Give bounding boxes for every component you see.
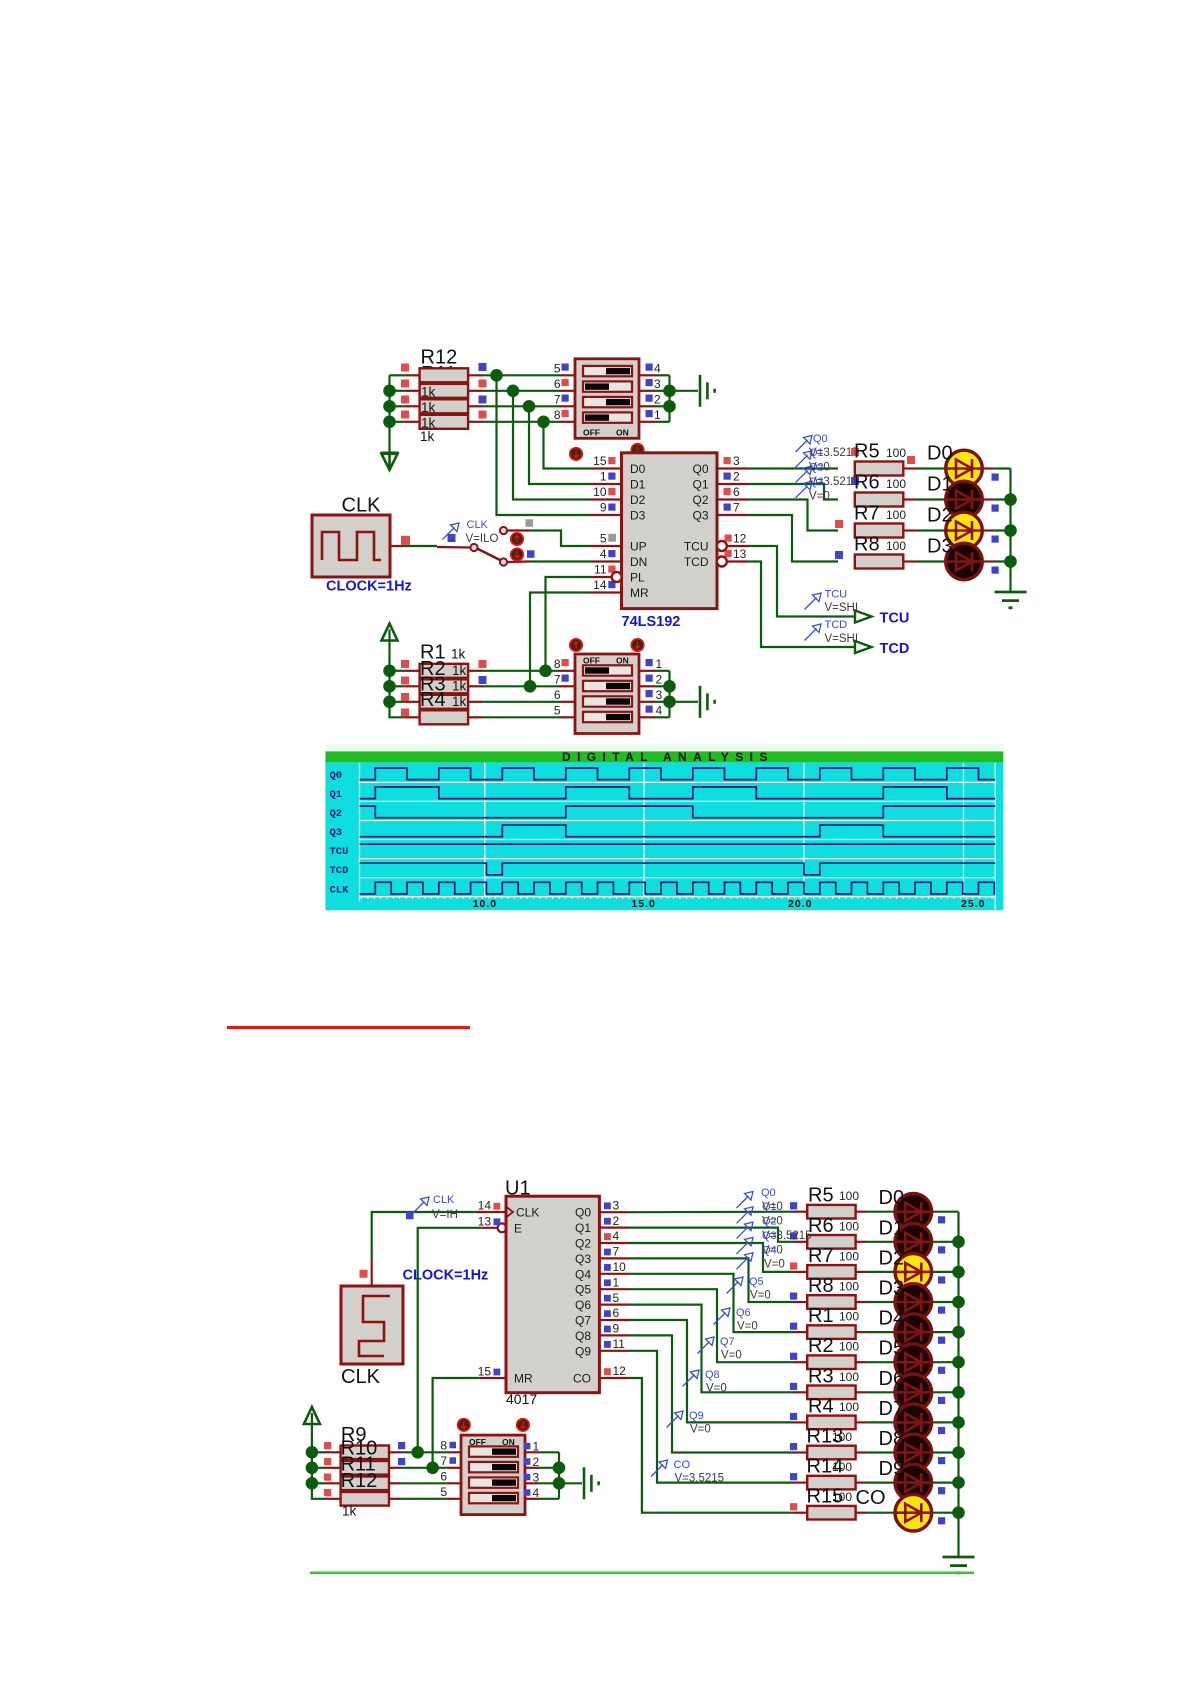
svg-text:14: 14 [478, 1199, 492, 1213]
wire pin14 stub [476, 1211, 507, 1213]
resistor R11 body [341, 1477, 389, 1491]
trace CLK [360, 882, 996, 894]
svg-text:CLOCK=1Hz: CLOCK=1Hz [326, 579, 412, 595]
svg-text:Q6: Q6 [736, 1307, 751, 1319]
svg-text:Q1: Q1 [809, 447, 824, 459]
wire UP pin stub [591, 545, 622, 547]
svg-text:1: 1 [656, 657, 663, 671]
power symbol VCC above R1 [382, 624, 398, 641]
svg-text:Q8: Q8 [705, 1369, 720, 1381]
wire wire to DIP3 y=1483 [401, 1482, 447, 1484]
resistor R6 [807, 1235, 855, 1249]
wire wire LED to bus [994, 529, 1010, 531]
ground arrow below R12 bus [381, 453, 399, 470]
wire R5 stub left [794, 1211, 808, 1213]
svg-text:CLOCK=1Hz: CLOCK=1Hz [403, 1268, 489, 1284]
logic state indicator above DSW3 a [458, 1419, 470, 1431]
svg-text:V=0: V=0 [721, 1350, 742, 1362]
svg-text:R7: R7 [854, 503, 880, 525]
svg-text:11: 11 [613, 1337, 626, 1351]
svg-text:7: 7 [733, 500, 740, 514]
svg-text:9: 9 [613, 1322, 620, 1336]
wire R9 stub left y=1452 [325, 1451, 341, 1453]
svg-text:PL: PL [630, 571, 645, 585]
wire R1 row y=686.3 [390, 685, 405, 687]
wire wire R12 to DIP1 y=390.8 [483, 390, 560, 392]
wire wire DIP row 391 to IC D-pin 500 [513, 391, 591, 500]
svg-text:13: 13 [733, 547, 747, 561]
junction [952, 1296, 965, 1309]
svg-text:R2: R2 [808, 1335, 834, 1357]
junction [383, 385, 396, 398]
wire wire LED to bus [932, 1391, 959, 1393]
svg-text:74LS192: 74LS192 [622, 614, 681, 630]
wire R2 stub right [856, 1361, 866, 1363]
svg-text:R3: R3 [808, 1365, 834, 1387]
wire LED stub right [983, 498, 995, 500]
svg-text:25.0: 25.0 [961, 898, 985, 910]
trace TCU [360, 843, 996, 845]
trace Q2 [360, 806, 996, 818]
probe arrow Q5 [727, 1277, 744, 1294]
svg-text:Q2: Q2 [762, 1216, 777, 1228]
wire wire DIP1 right y=406.3 [655, 405, 670, 407]
svg-text:TCU: TCU [330, 846, 349, 858]
wire wire to ground 2 [670, 701, 699, 703]
wire R9 stub right y=1468 [389, 1467, 401, 1469]
net markers R12 right [479, 363, 487, 371]
clock input triangle [506, 1207, 513, 1218]
wire wire Q8 to resistor [630, 1335, 794, 1452]
wire wire DIP1 right y=375.3 [655, 374, 670, 376]
svg-text:7: 7 [554, 673, 561, 687]
wire R12 pin stub left y=421.8 [404, 421, 419, 423]
wire IC1 right pin stub y=515.0 [717, 514, 748, 516]
probe arrow s2 Q2 [737, 1222, 754, 1239]
svg-text:Q7: Q7 [720, 1336, 735, 1348]
svg-text:100: 100 [886, 477, 906, 491]
svg-text:CO: CO [674, 1459, 691, 1471]
svg-text:13: 13 [478, 1214, 492, 1228]
wire wire Q1 to resistor [630, 1228, 794, 1242]
ground GND s2 [584, 1467, 599, 1499]
wire IC1 left pin stub y=499.5 [591, 498, 622, 500]
wire wire DIP3 right y=1483 [539, 1482, 560, 1484]
probe arrow s2 Q1 [737, 1207, 754, 1224]
wire wire LED to bus [994, 467, 1010, 469]
wire cathode bus [1009, 469, 1011, 592]
svg-text:15.0: 15.0 [631, 898, 655, 910]
wire wire DIP1 right y=421.8 [655, 421, 670, 423]
svg-text:TCU: TCU [825, 589, 848, 601]
svg-text:Q0: Q0 [813, 433, 828, 445]
svg-text:4017: 4017 [506, 1391, 537, 1407]
svg-text:V=IH: V=IH [432, 1209, 458, 1221]
svg-text:100: 100 [839, 1189, 859, 1203]
LED D2 [894, 1254, 932, 1291]
wire wire Q9 to resistor [630, 1351, 794, 1483]
probe arrow s2 Q3 [737, 1237, 754, 1254]
wire wire switch to DN [529, 560, 591, 562]
wire R9 stub right y=1483 [389, 1482, 401, 1484]
svg-text:Q7: Q7 [575, 1314, 591, 1328]
wire E stub [481, 1227, 497, 1229]
junction [553, 1477, 566, 1490]
probe arrow CO [651, 1460, 668, 1477]
svg-text:7: 7 [613, 1245, 620, 1259]
svg-text:R6: R6 [808, 1215, 834, 1237]
probe arrow Q1 [796, 451, 813, 468]
wire wire to DIP3 y=1468 [401, 1467, 447, 1469]
svg-text:7: 7 [554, 393, 561, 407]
wire wire LED to bus [932, 1301, 959, 1303]
wire R12 row y=375.3 [390, 374, 405, 376]
wire R8 stub left [794, 1301, 808, 1303]
svg-text:V=0: V=0 [750, 1290, 771, 1302]
svg-text:CO: CO [573, 1372, 591, 1386]
wire R12 pin stub right y=375.3 [468, 374, 483, 376]
wire wire CLK to pin14 [372, 1212, 476, 1258]
svg-text:Q9: Q9 [689, 1410, 704, 1422]
svg-text:5: 5 [440, 1485, 447, 1499]
svg-text:6: 6 [554, 377, 561, 391]
svg-text:100: 100 [839, 1370, 859, 1384]
PL pin bubble [612, 572, 622, 582]
TCU pin bubble [717, 541, 727, 551]
svg-text:8: 8 [440, 1439, 447, 1453]
resistor R12-c [420, 399, 469, 413]
resistor R1 [807, 1325, 855, 1339]
wire R9 row y=1468 [312, 1467, 325, 1469]
svg-text:R7: R7 [808, 1245, 834, 1267]
wire Q stub y=1320 [599, 1319, 629, 1321]
junction [952, 1326, 965, 1339]
terminal TCU [855, 611, 872, 623]
trace Q0 [360, 768, 996, 780]
svg-text:CO: CO [856, 1487, 886, 1509]
wire wire DIP2 right y=686.3 [655, 685, 670, 687]
wire Q stub y=1351 [599, 1350, 629, 1352]
svg-text:Q9: Q9 [575, 1344, 591, 1358]
wire wire TCD to terminal [748, 562, 856, 648]
trace Q3 [360, 825, 996, 837]
wire DIP1 pin stub right y=421.8 [639, 421, 655, 423]
wire R13 stub left [794, 1451, 808, 1453]
resistor R5 [807, 1205, 855, 1219]
wire wire Q3 to R8 [748, 515, 839, 562]
junction [523, 400, 536, 413]
svg-text:D8: D8 [879, 1428, 905, 1450]
svg-text:Q5: Q5 [575, 1283, 591, 1297]
wire IC1 right pin stub y=484.0 [717, 483, 748, 485]
svg-text:R12: R12 [341, 1470, 378, 1492]
svg-text:Q3: Q3 [762, 1230, 777, 1242]
wire wire R6 to LED [917, 498, 946, 500]
svg-text:D1: D1 [927, 474, 953, 496]
LED D6 [894, 1374, 932, 1411]
wire R3 stub right [856, 1391, 866, 1393]
wire wire Q7 to resistor [630, 1320, 794, 1422]
wire DIP3 stub right y=1452 [524, 1451, 539, 1453]
svg-text:8: 8 [554, 657, 561, 671]
wire wire DIP row 422 to IC D-pin 468 [544, 422, 591, 469]
svg-text:20.0: 20.0 [788, 898, 812, 910]
svg-text:E: E [514, 1221, 522, 1235]
wire R1 stub right [856, 1331, 866, 1333]
svg-text:6: 6 [733, 485, 740, 499]
svg-text:Q6: Q6 [575, 1298, 591, 1312]
wire DIP2 stub left y=670.8 [559, 670, 575, 672]
wire wire DIP2 right y=717.3 [655, 716, 670, 718]
wire DIP2 stub left y=717.3 [559, 716, 575, 718]
wire wire Q5 to resistor [630, 1289, 794, 1362]
ground LED bus ground [995, 592, 1027, 608]
wire R12 pin stub right y=390.8 [468, 390, 483, 392]
svg-text:CLK: CLK [516, 1206, 539, 1220]
svg-text:Q0: Q0 [692, 462, 708, 476]
wire R1 stub left [794, 1331, 808, 1333]
svg-text:R6: R6 [854, 472, 880, 494]
wire DIP1 pin stub right y=390.8 [639, 390, 655, 392]
probe arrow TCU [805, 593, 822, 610]
wire R14 stub left [794, 1481, 808, 1483]
resistor R2 [420, 679, 469, 693]
svg-text:Q2: Q2 [692, 493, 708, 507]
resistor R1 [420, 664, 469, 678]
svg-text:5: 5 [554, 704, 561, 718]
switch SW-SPDT [470, 527, 507, 566]
wire R9 stub left y=1483 [325, 1482, 341, 1484]
wire wire to ground [670, 390, 699, 392]
resistor R3 [420, 695, 469, 709]
svg-text:TCU: TCU [684, 540, 709, 554]
logic state indicator above DIP2 b [631, 639, 643, 651]
junction [426, 1462, 439, 1475]
svg-text:MR: MR [514, 1372, 533, 1386]
logic state indicator above DSW3 b [517, 1419, 529, 1431]
wire wire Q1 to R6 [748, 484, 839, 500]
svg-text:5: 5 [613, 1291, 620, 1305]
resistor R14 [807, 1476, 855, 1490]
LED D1 [894, 1224, 932, 1261]
terminal TCD [855, 641, 872, 653]
svg-text:100: 100 [886, 446, 906, 460]
svg-text:D3: D3 [927, 536, 953, 558]
LED D9 [894, 1464, 932, 1501]
wire IC1 left pin stub y=468.5 [591, 467, 622, 469]
wire R2 stub left [794, 1361, 808, 1363]
logic state indicator above pin15 [570, 448, 582, 460]
junction [663, 400, 676, 413]
wire R9 bus [312, 1424, 325, 1499]
wire Q stub y=1228 [599, 1226, 629, 1228]
wire wire R7 to LED [866, 1271, 895, 1273]
plot background [325, 762, 1003, 910]
svg-text:12: 12 [613, 1364, 627, 1378]
wire wire CO to R15 [630, 1378, 794, 1513]
svg-text:R12: R12 [421, 347, 458, 369]
svg-text:100: 100 [886, 539, 906, 553]
wire wire DIP3 right y=1499 [539, 1498, 560, 1500]
junction [306, 1462, 319, 1475]
resistor R12 body [341, 1492, 389, 1506]
LED D0 [894, 1193, 932, 1230]
svg-text:6: 6 [613, 1306, 620, 1320]
wire wire DIP2 right y=701.8 [655, 701, 670, 703]
svg-text:5: 5 [600, 531, 607, 545]
junction [411, 1446, 424, 1459]
LED D5 [894, 1344, 932, 1381]
wire R7 stub left [794, 1271, 808, 1273]
wire wire R5 to LED [917, 467, 946, 469]
svg-text:DIGITAL ANALYSIS: DIGITAL ANALYSIS [562, 750, 774, 764]
wire wire R to DIP2 y=701.8 [483, 701, 560, 703]
wire wire R13 to LED [866, 1451, 895, 1453]
wire R12 bus vertical [388, 375, 390, 452]
wire R8 stub right [856, 1301, 866, 1303]
junction [952, 1386, 965, 1399]
wire DIP2 right bus [668, 671, 670, 718]
svg-text:Q1: Q1 [575, 1221, 591, 1235]
wire wire Q4 to resistor [630, 1274, 794, 1332]
svg-text:3: 3 [656, 688, 663, 702]
wire CO stub [599, 1377, 629, 1379]
svg-text:Q3: Q3 [330, 827, 343, 839]
wire LED stub right [983, 467, 995, 469]
resistor R12-b [420, 384, 469, 398]
svg-text:4: 4 [613, 1229, 620, 1243]
svg-text:Q1: Q1 [762, 1201, 777, 1213]
wire TCD stub [727, 560, 748, 562]
wire wire Q0 to R5 [748, 467, 839, 469]
resistor R12-d [420, 415, 469, 429]
wire DIP1 pin stub left y=421.8 [559, 421, 575, 423]
svg-text:D3: D3 [630, 509, 646, 523]
resistor R9 body [341, 1446, 389, 1460]
wire Q stub y=1258 [599, 1257, 629, 1259]
ground bus2 ground [943, 1557, 975, 1573]
svg-text:CLK: CLK [341, 1366, 381, 1388]
svg-text:ON: ON [616, 427, 629, 437]
svg-text:1k: 1k [420, 429, 435, 444]
wire LED stub right [983, 529, 995, 531]
wire R9 row y=1483 [312, 1482, 325, 1484]
wire wire R to DIP2 y=670.8 [483, 670, 560, 672]
svg-text:D0: D0 [630, 462, 646, 476]
junction [663, 680, 676, 693]
LED D4 [894, 1314, 932, 1351]
probe arrow Q9 [667, 1411, 684, 1428]
junction [306, 1446, 319, 1459]
wire wire to DIP3 y=1499 [401, 1498, 447, 1500]
LED D8 [894, 1434, 932, 1471]
svg-text:MR: MR [630, 586, 649, 600]
wire Q stub y=1305 [599, 1303, 629, 1305]
wire wire DIP row 406 to IC D-pin 484 [529, 406, 591, 484]
junction [1004, 555, 1017, 568]
probe arrow Q3 [796, 481, 813, 498]
svg-text:9: 9 [600, 500, 607, 514]
wire R12 row y=406.3 [390, 405, 405, 407]
wire wire LED to bus [932, 1361, 959, 1363]
logic state indicator on CLK net [511, 533, 523, 545]
wire R9 stub left y=1468 [325, 1467, 341, 1469]
junction [383, 665, 396, 678]
wire DIP1 pin stub left y=375.3 [559, 374, 575, 376]
wire wire Q2 to R7 [748, 500, 839, 531]
svg-text:10.0: 10.0 [473, 898, 497, 910]
wire R12 pin stub left y=406.3 [404, 405, 419, 407]
svg-text:7: 7 [440, 1454, 447, 1468]
LED D1 [945, 481, 983, 518]
power symbol VCC s2 [304, 1407, 320, 1424]
junction [952, 1356, 965, 1369]
svg-text:TCD: TCD [330, 865, 349, 877]
svg-text:Q2: Q2 [809, 462, 824, 474]
svg-text:3: 3 [654, 377, 661, 391]
probe arrow CLK s2 [413, 1197, 430, 1214]
wire DIP1 pin stub left y=390.8 [559, 390, 575, 392]
resistor R6 [855, 493, 904, 507]
svg-text:Q0: Q0 [761, 1187, 776, 1199]
wire DIP2 stub right y=686.3 [639, 685, 655, 687]
wire wire R5 to LED [866, 1211, 895, 1213]
wire R9 stub left y=1499 [325, 1498, 341, 1500]
junction [952, 1266, 965, 1279]
svg-text:1k: 1k [452, 679, 467, 694]
svg-text:100: 100 [839, 1280, 859, 1294]
wire MR stub [591, 591, 622, 593]
wire wire R12 to DIP1 y=421.8 [483, 421, 560, 423]
wire DN pin stub [591, 560, 622, 562]
wire wire Q0 to R5 [630, 1211, 794, 1214]
wire DIP1 pin stub right y=406.3 [639, 405, 655, 407]
wire wire R14 to LED [866, 1481, 895, 1483]
wire wire R12 to DIP1 y=375.3 [483, 374, 560, 376]
svg-text:V=SHI: V=SHI [825, 633, 859, 645]
wire wire LED to bus [932, 1421, 959, 1423]
wire wire PL to R1 row [546, 577, 591, 671]
trace Q1 [360, 787, 996, 799]
wire R14 stub right [856, 1481, 866, 1483]
junction [539, 665, 552, 678]
svg-text:14: 14 [593, 578, 607, 592]
wire clk stub up [371, 1258, 373, 1286]
wire DIP2 stub right y=670.8 [639, 670, 655, 672]
wire TCU stub [727, 545, 748, 547]
wire wire to ground 3 [559, 1482, 582, 1484]
wire CLK to switch [404, 545, 437, 547]
wire wire Q2 to resistor [630, 1243, 794, 1272]
wire DIP2 stub left y=686.3 [559, 685, 575, 687]
net markers R12 area [401, 364, 409, 372]
wire R6 stub right [856, 1241, 866, 1243]
wire DIP2 stub right y=717.3 [639, 716, 655, 718]
wire Q stub y=1335 [599, 1334, 629, 1336]
probe arrow Q2 [796, 466, 813, 483]
resistor R5 [855, 462, 904, 476]
wire wire LED to bus [932, 1481, 959, 1483]
svg-text:Q0: Q0 [330, 770, 343, 782]
DIP switch DSW3 [461, 1435, 525, 1515]
probe arrow Q0 [796, 436, 813, 453]
svg-text:Q3: Q3 [692, 509, 708, 523]
svg-text:100: 100 [839, 1400, 859, 1414]
LED D2 [945, 512, 983, 549]
svg-text:100: 100 [839, 1310, 859, 1324]
svg-text:DN: DN [630, 555, 647, 569]
svg-text:R15: R15 [807, 1486, 844, 1508]
